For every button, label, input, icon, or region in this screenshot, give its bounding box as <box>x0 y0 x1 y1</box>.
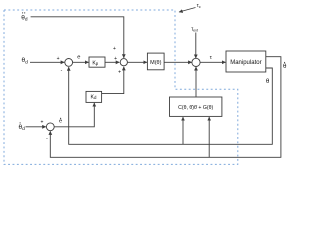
svg-text:-: - <box>61 68 63 74</box>
svg-text:e: e <box>77 55 80 61</box>
svg-text:M(θ): M(θ) <box>150 60 161 66</box>
svg-text:θ: θ <box>283 63 287 70</box>
svg-text:τc: τc <box>197 3 201 9</box>
svg-text:+: + <box>57 56 60 62</box>
svg-text:Kd: Kd <box>91 94 97 100</box>
svg-text:C(θ, θ̇)θ̇ + G(θ): C(θ, θ̇)θ̇ + G(θ) <box>178 105 213 111</box>
svg-text:-: - <box>46 136 48 142</box>
svg-text:+: + <box>113 46 116 52</box>
svg-text:θd: θd <box>21 15 28 23</box>
svg-text:e: e <box>59 119 62 125</box>
svg-text:τ: τ <box>210 55 213 61</box>
svg-text:θd: θd <box>22 57 29 65</box>
svg-text:τext: τext <box>191 27 198 33</box>
svg-text:θd: θd <box>19 124 26 132</box>
svg-text:Manipulator: Manipulator <box>230 60 261 66</box>
svg-text:θ: θ <box>266 78 270 85</box>
svg-text:+: + <box>118 70 121 76</box>
svg-text:Kp: Kp <box>92 60 98 66</box>
svg-text:+: + <box>40 120 43 126</box>
svg-text:+: + <box>114 56 117 62</box>
